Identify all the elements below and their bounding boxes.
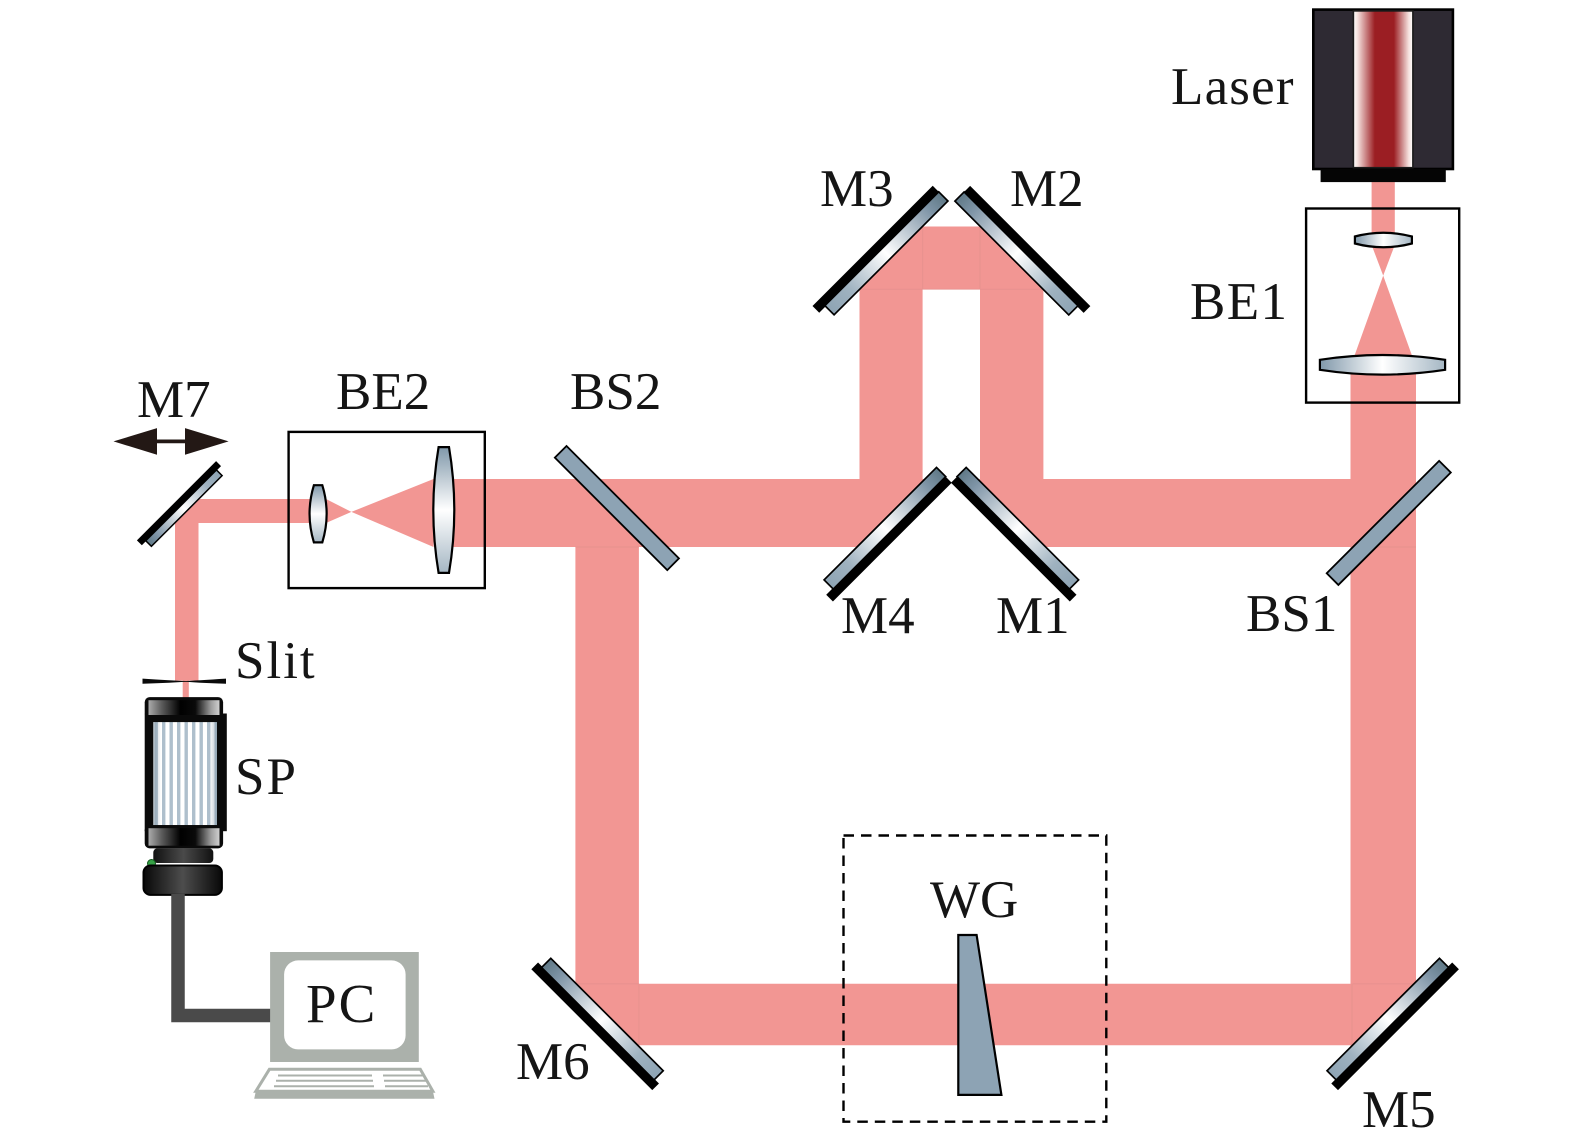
lens BE1 small bbox=[1355, 233, 1412, 248]
wire: narrow beam M7 down to slit bbox=[175, 499, 199, 680]
svg-text:M5: M5 bbox=[1362, 1081, 1436, 1139]
wire: beam slit to spectrometer bbox=[183, 681, 189, 699]
wire: beam BE2 converging cone bbox=[351, 479, 433, 547]
mirror M5 bbox=[1323, 954, 1459, 1090]
wire: vertical beam BS2 to M6 bbox=[575, 547, 639, 1046]
svg-text:Laser: Laser bbox=[1171, 58, 1295, 116]
cable SP to PC bbox=[178, 894, 272, 1016]
beam expander BE1 box bbox=[1306, 209, 1459, 403]
svg-text:SP: SP bbox=[235, 748, 298, 806]
spectrometer SP bbox=[144, 697, 227, 895]
svg-text:M3: M3 bbox=[820, 160, 894, 218]
wire: main horizontal beam BE2 to M4 bbox=[444, 479, 925, 547]
wire: vertical beam BE1 through BS1 to M5 bbox=[1351, 360, 1417, 1047]
beam splitter BS1 bbox=[1327, 461, 1451, 585]
beam expander BE2 box bbox=[289, 432, 485, 588]
laser housing bbox=[1313, 10, 1453, 183]
svg-text:Slit: Slit bbox=[235, 632, 317, 690]
wedge glass WG dashed box bbox=[844, 836, 1107, 1122]
wire: beam BE2 diverging cone bbox=[326, 499, 351, 523]
wire: main horizontal beam M1 to BS1 bbox=[978, 479, 1416, 547]
svg-text:M7: M7 bbox=[137, 371, 211, 429]
lens BE2 large bbox=[433, 447, 454, 573]
svg-text:BS1: BS1 bbox=[1246, 585, 1337, 643]
wire: vertical beam M3 to M4 bbox=[860, 226, 923, 544]
wire: bottom horizontal beam M6 to M5 through WG bbox=[576, 984, 1414, 1045]
svg-text:M4: M4 bbox=[841, 587, 915, 645]
mirror M4 bbox=[818, 467, 952, 601]
translation arrow above M7 bbox=[114, 428, 229, 455]
wire: vertical beam M1 to M2 bbox=[980, 226, 1043, 545]
slit right blade bbox=[180, 679, 227, 684]
wire: top horizontal beam M3 to M2 bbox=[860, 227, 1044, 290]
svg-text:BS2: BS2 bbox=[570, 363, 661, 421]
wire: beam laser to BE1 small lens bbox=[1372, 181, 1395, 241]
svg-text:WG: WG bbox=[930, 871, 1018, 929]
mirror M2 bbox=[955, 186, 1090, 321]
mirror M1 bbox=[951, 467, 1085, 601]
wedge glass WG bbox=[958, 935, 1001, 1095]
wire: beam BE1 converging cone bbox=[1372, 245, 1395, 276]
svg-text:BE2: BE2 bbox=[336, 363, 430, 421]
lens BE1 large bbox=[1320, 355, 1445, 375]
beam splitter BS2 bbox=[555, 446, 679, 570]
wire: narrow beam BE2 to M7 bbox=[175, 499, 318, 523]
wire: beam BE1 diverging cone bbox=[1354, 276, 1413, 357]
svg-text:M6: M6 bbox=[516, 1033, 590, 1091]
mirror M7 bbox=[137, 461, 226, 550]
mirror M3 bbox=[813, 186, 948, 321]
svg-text:M1: M1 bbox=[996, 587, 1070, 645]
svg-text:M2: M2 bbox=[1010, 160, 1084, 218]
computer PC bbox=[254, 952, 434, 1099]
svg-text:PC: PC bbox=[306, 973, 377, 1034]
slit left blade bbox=[143, 679, 194, 684]
mirror M6 bbox=[531, 954, 667, 1090]
wire: faint beam overlap seams bbox=[575, 227, 1416, 1046]
svg-text:BE1: BE1 bbox=[1190, 273, 1288, 331]
lens BE2 small bbox=[310, 485, 327, 542]
